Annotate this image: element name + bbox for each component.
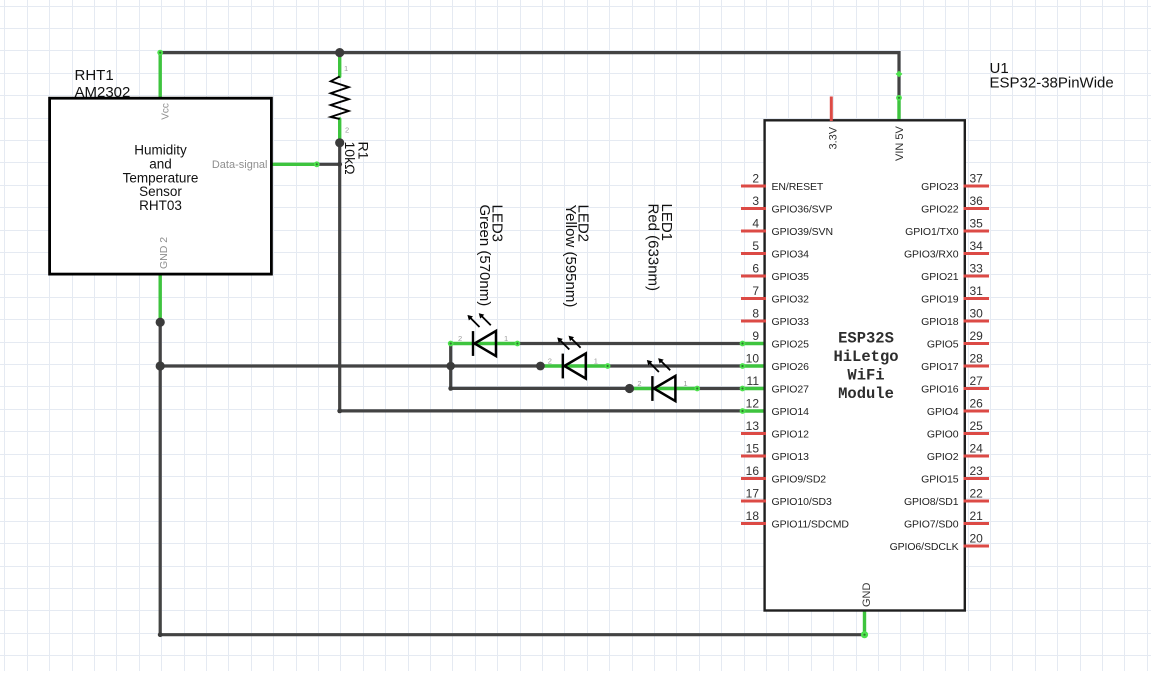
svg-text:GPIO7/SD0: GPIO7/SD0 <box>904 518 959 530</box>
svg-text:Vcc: Vcc <box>161 103 172 120</box>
svg-text:11: 11 <box>747 374 760 388</box>
svg-text:37: 37 <box>970 172 984 186</box>
svg-text:30: 30 <box>970 307 984 321</box>
svg-text:5: 5 <box>752 239 759 253</box>
svg-text:GPIO11/SDCMD: GPIO11/SDCMD <box>772 518 850 530</box>
svg-text:26: 26 <box>970 397 984 411</box>
svg-text:GPIO10/SD3: GPIO10/SD3 <box>772 496 833 508</box>
svg-text:36: 36 <box>970 194 984 208</box>
svg-text:1: 1 <box>594 356 598 365</box>
svg-text:7: 7 <box>752 284 759 298</box>
svg-text:GPIO14: GPIO14 <box>772 406 810 418</box>
svg-text:RHT1: RHT1 <box>75 67 114 84</box>
svg-text:33: 33 <box>970 262 984 276</box>
svg-text:GPIO19: GPIO19 <box>921 293 959 305</box>
svg-text:GPIO22: GPIO22 <box>921 203 959 215</box>
svg-text:GPIO23: GPIO23 <box>921 181 959 193</box>
svg-text:13: 13 <box>746 419 760 433</box>
svg-text:GPIO35: GPIO35 <box>772 271 810 283</box>
svg-text:18: 18 <box>746 509 760 523</box>
svg-text:21: 21 <box>970 509 984 523</box>
svg-text:31: 31 <box>970 284 984 298</box>
svg-text:9: 9 <box>752 329 759 343</box>
svg-text:GPIO25: GPIO25 <box>772 338 810 350</box>
svg-text:28: 28 <box>970 352 984 366</box>
svg-text:22: 22 <box>970 487 984 501</box>
svg-text:GPIO6/SDCLK: GPIO6/SDCLK <box>890 541 959 553</box>
svg-text:GPIO9/SD2: GPIO9/SD2 <box>772 473 827 485</box>
svg-text:24: 24 <box>970 442 984 456</box>
svg-text:GPIO0: GPIO0 <box>927 428 959 440</box>
svg-text:20: 20 <box>970 532 984 546</box>
svg-text:GPIO39/SVN: GPIO39/SVN <box>772 226 833 238</box>
svg-text:6: 6 <box>752 262 759 276</box>
svg-text:25: 25 <box>970 419 984 433</box>
svg-text:3.3V: 3.3V <box>828 126 840 149</box>
svg-text:Data-signal: Data-signal <box>212 159 268 171</box>
svg-text:GPIO8/SD1: GPIO8/SD1 <box>904 496 959 508</box>
svg-text:1: 1 <box>504 334 508 343</box>
svg-text:4: 4 <box>752 217 759 231</box>
svg-text:2: 2 <box>637 379 641 388</box>
svg-text:29: 29 <box>970 329 984 343</box>
svg-text:GPIO2: GPIO2 <box>927 451 959 463</box>
svg-text:2: 2 <box>458 334 462 343</box>
svg-text:GPIO16: GPIO16 <box>921 383 959 395</box>
svg-text:VIN 5V: VIN 5V <box>894 125 906 161</box>
svg-text:GPIO18: GPIO18 <box>921 316 959 328</box>
svg-text:3: 3 <box>752 194 759 208</box>
svg-text:27: 27 <box>970 374 984 388</box>
svg-text:GPIO21: GPIO21 <box>921 271 959 283</box>
svg-text:2: 2 <box>345 126 349 135</box>
svg-text:16: 16 <box>746 464 760 478</box>
svg-text:GPIO33: GPIO33 <box>772 316 810 328</box>
svg-text:1: 1 <box>344 64 348 73</box>
svg-text:EN/RESET: EN/RESET <box>772 181 824 193</box>
svg-text:GPIO27: GPIO27 <box>772 383 810 395</box>
svg-text:GPIO5: GPIO5 <box>927 338 959 350</box>
svg-text:GPIO13: GPIO13 <box>772 451 810 463</box>
svg-text:ESP32-38PinWide: ESP32-38PinWide <box>990 75 1114 92</box>
svg-text:12: 12 <box>746 397 760 411</box>
svg-text:GPIO3/RX0: GPIO3/RX0 <box>904 248 959 260</box>
svg-text:2: 2 <box>548 356 552 365</box>
svg-text:GPIO4: GPIO4 <box>927 406 959 418</box>
svg-text:17: 17 <box>746 487 760 501</box>
svg-text:10: 10 <box>746 352 760 366</box>
svg-text:GPIO17: GPIO17 <box>921 361 959 373</box>
svg-text:GND 2: GND 2 <box>158 237 170 269</box>
svg-text:GPIO34: GPIO34 <box>772 248 810 260</box>
svg-text:GPIO12: GPIO12 <box>772 428 810 440</box>
svg-text:GPIO32: GPIO32 <box>772 293 810 305</box>
svg-text:GPIO36/SVP: GPIO36/SVP <box>772 203 833 215</box>
svg-text:35: 35 <box>970 217 984 231</box>
svg-text:23: 23 <box>970 464 984 478</box>
svg-text:GND: GND <box>861 583 873 608</box>
svg-text:GPIO26: GPIO26 <box>772 361 810 373</box>
svg-text:34: 34 <box>970 239 984 253</box>
svg-text:15: 15 <box>746 442 760 456</box>
svg-text:8: 8 <box>752 307 759 321</box>
svg-text:2: 2 <box>752 172 759 186</box>
svg-text:GPIO1/TX0: GPIO1/TX0 <box>905 226 959 238</box>
svg-text:1: 1 <box>683 379 687 388</box>
svg-text:GPIO15: GPIO15 <box>921 473 959 485</box>
svg-text:AM2302: AM2302 <box>75 84 131 101</box>
